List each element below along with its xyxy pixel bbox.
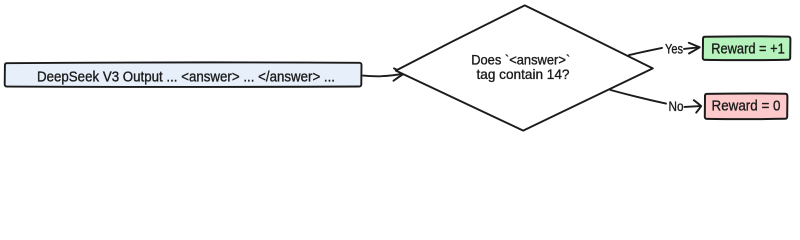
- svg-text:DeepSeek V3 Output ... <answer: DeepSeek V3 Output ... <answer> ... </an…: [37, 69, 335, 85]
- label: Reward = 0: [712, 99, 781, 115]
- svg-text:Reward = 0: Reward = 0: [712, 99, 781, 115]
- label: No: [669, 98, 684, 114]
- label: DeepSeek V3 Output ... <answer> ... </answer> ...: [37, 69, 335, 85]
- wire: No branch from diamond to reward 0 box: [611, 90, 702, 113]
- decision diamond D1: Does `<answer>` tag contain 14?: [396, 5, 653, 130]
- svg-text:No: No: [669, 98, 684, 114]
- label: Reward = +1: [711, 41, 785, 57]
- wire: Yes branch from diamond to reward +1 box: [629, 43, 700, 55]
- terminal box B2: Reward = +1: [703, 36, 791, 60]
- label: tag contain 14? (diamond line 2): [477, 66, 570, 82]
- wire: arrow from B1 to decision diamond: [363, 68, 404, 80]
- terminal box B3: Reward = 0: [705, 93, 788, 119]
- label: Yes: [665, 41, 683, 57]
- svg-text:Does `<answer>`: Does `<answer>`: [471, 52, 570, 68]
- svg-text:Reward = +1: Reward = +1: [711, 41, 785, 57]
- label: Does `<answer>` (diamond line 1): [471, 52, 570, 68]
- svg-text:Yes: Yes: [665, 41, 683, 57]
- svg-text:tag contain 14?: tag contain 14?: [477, 66, 570, 82]
- process box B1: DeepSeek V3 Output: [5, 62, 362, 87]
